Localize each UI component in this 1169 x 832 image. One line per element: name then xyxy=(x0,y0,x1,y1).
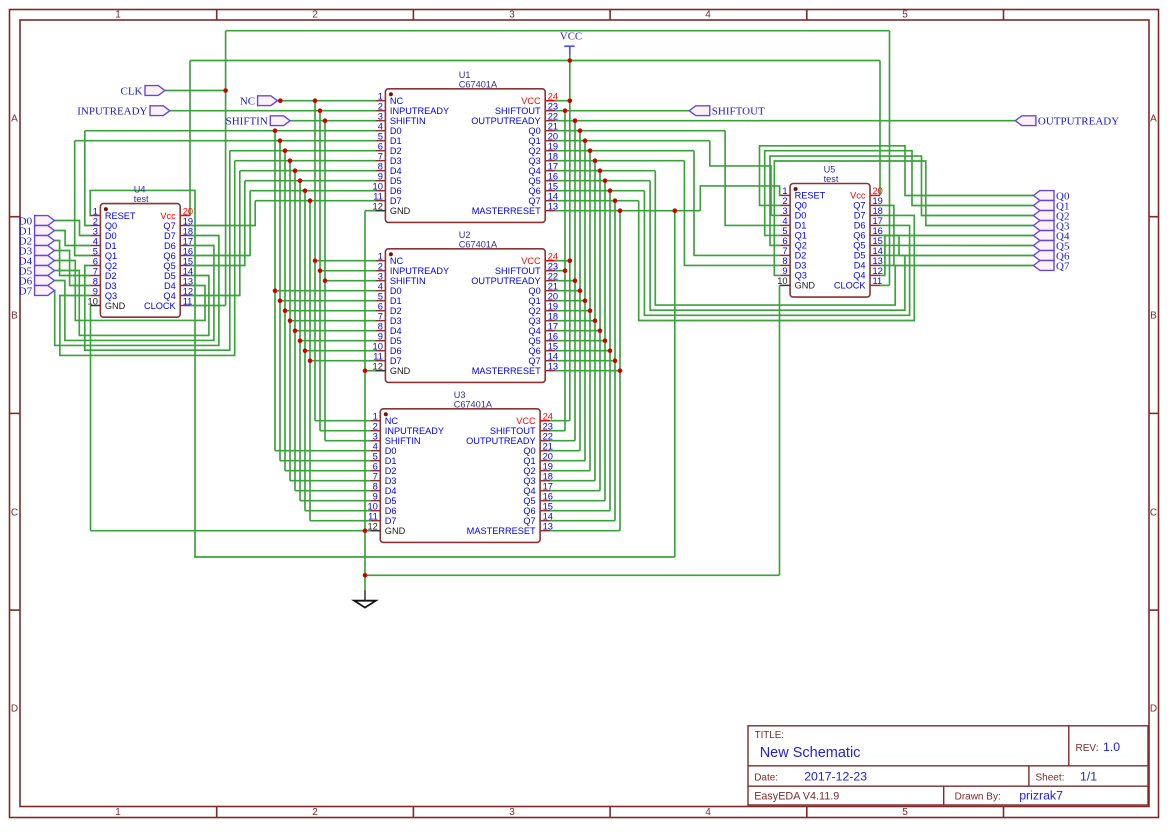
svg-text:D7: D7 xyxy=(854,211,866,221)
svg-text:8: 8 xyxy=(378,322,383,332)
svg-text:OUTPUTREADY: OUTPUTREADY xyxy=(1038,116,1119,128)
svg-text:1: 1 xyxy=(115,10,121,21)
svg-text:15: 15 xyxy=(548,342,558,352)
svg-text:6: 6 xyxy=(93,256,98,266)
svg-text:Q0: Q0 xyxy=(528,126,540,136)
svg-text:D1: D1 xyxy=(390,136,402,146)
svg-text:19: 19 xyxy=(543,462,553,472)
svg-text:18: 18 xyxy=(548,312,558,322)
svg-text:19: 19 xyxy=(183,216,193,226)
svg-text:2: 2 xyxy=(312,10,318,21)
svg-text:CLOCK: CLOCK xyxy=(144,301,177,311)
svg-text:16: 16 xyxy=(873,226,883,236)
svg-text:11: 11 xyxy=(183,296,193,306)
svg-text:VCC: VCC xyxy=(516,416,536,426)
svg-text:22: 22 xyxy=(548,112,558,122)
svg-text:CLOCK: CLOCK xyxy=(834,281,867,291)
svg-text:Q3: Q3 xyxy=(523,476,535,486)
svg-text:B: B xyxy=(1150,311,1157,322)
svg-text:SHIFTIN: SHIFTIN xyxy=(385,436,421,446)
svg-text:SHIFTIN: SHIFTIN xyxy=(390,276,426,286)
svg-text:2: 2 xyxy=(378,102,383,112)
svg-text:4: 4 xyxy=(782,216,787,226)
svg-text:Sheet:: Sheet: xyxy=(1036,772,1065,783)
svg-text:Date:: Date: xyxy=(754,772,778,783)
svg-text:3: 3 xyxy=(782,206,787,216)
svg-text:D3: D3 xyxy=(390,316,402,326)
svg-text:D7: D7 xyxy=(19,285,33,297)
svg-text:1: 1 xyxy=(93,206,98,216)
svg-text:INPUTREADY: INPUTREADY xyxy=(385,426,444,436)
svg-text:2: 2 xyxy=(93,216,98,226)
svg-text:prizrak7: prizrak7 xyxy=(1019,789,1063,803)
svg-text:2: 2 xyxy=(373,422,378,432)
svg-text:Q1: Q1 xyxy=(528,296,540,306)
svg-text:2: 2 xyxy=(312,807,318,818)
svg-text:NC: NC xyxy=(385,416,399,426)
svg-text:D2: D2 xyxy=(105,271,117,281)
svg-text:Q7: Q7 xyxy=(1056,260,1070,272)
svg-text:13: 13 xyxy=(873,256,883,266)
svg-text:SHIFTOUT: SHIFTOUT xyxy=(495,266,541,276)
svg-text:New Schematic: New Schematic xyxy=(760,745,861,761)
svg-text:24: 24 xyxy=(548,92,558,102)
svg-text:D3: D3 xyxy=(795,261,807,271)
svg-text:Q5: Q5 xyxy=(523,496,535,506)
svg-text:U1: U1 xyxy=(459,70,471,80)
svg-text:GND: GND xyxy=(385,526,406,536)
svg-text:VCC: VCC xyxy=(521,256,541,266)
svg-text:16: 16 xyxy=(548,172,558,182)
svg-text:12: 12 xyxy=(367,522,377,532)
svg-text:Q6: Q6 xyxy=(163,251,175,261)
svg-text:D0: D0 xyxy=(385,446,397,456)
svg-text:13: 13 xyxy=(543,522,553,532)
svg-text:6: 6 xyxy=(373,462,378,472)
svg-text:D5: D5 xyxy=(390,336,402,346)
svg-text:D4: D4 xyxy=(385,486,397,496)
svg-text:24: 24 xyxy=(543,412,553,422)
svg-text:3: 3 xyxy=(378,112,383,122)
svg-text:16: 16 xyxy=(183,246,193,256)
svg-text:A: A xyxy=(1150,114,1157,125)
svg-text:D1: D1 xyxy=(795,221,807,231)
svg-text:D7: D7 xyxy=(390,196,402,206)
svg-text:D4: D4 xyxy=(854,261,866,271)
svg-text:10: 10 xyxy=(777,276,787,286)
svg-text:10: 10 xyxy=(367,502,377,512)
svg-text:17: 17 xyxy=(548,162,558,172)
svg-text:SHIFTOUT: SHIFTOUT xyxy=(490,426,536,436)
svg-text:Q4: Q4 xyxy=(853,271,865,281)
svg-text:20: 20 xyxy=(873,186,883,196)
svg-text:1.0: 1.0 xyxy=(1103,740,1120,754)
svg-text:24: 24 xyxy=(548,252,558,262)
svg-text:D0: D0 xyxy=(105,231,117,241)
svg-text:6: 6 xyxy=(782,236,787,246)
svg-text:20: 20 xyxy=(543,452,553,462)
svg-text:4: 4 xyxy=(705,10,711,21)
svg-text:12: 12 xyxy=(373,362,383,372)
svg-text:9: 9 xyxy=(93,286,98,296)
svg-text:22: 22 xyxy=(543,432,553,442)
svg-text:13: 13 xyxy=(548,362,558,372)
svg-text:D3: D3 xyxy=(385,476,397,486)
svg-text:D4: D4 xyxy=(390,166,402,176)
svg-text:Q6: Q6 xyxy=(528,346,540,356)
svg-text:13: 13 xyxy=(548,202,558,212)
svg-text:Q0: Q0 xyxy=(528,286,540,296)
svg-text:17: 17 xyxy=(183,236,193,246)
svg-text:3: 3 xyxy=(509,10,515,21)
svg-text:14: 14 xyxy=(183,266,193,276)
svg-text:U2: U2 xyxy=(459,230,471,240)
svg-text:1: 1 xyxy=(373,412,378,422)
svg-text:RESET: RESET xyxy=(105,211,136,221)
svg-text:9: 9 xyxy=(782,266,787,276)
svg-text:D0: D0 xyxy=(390,286,402,296)
svg-text:Q5: Q5 xyxy=(528,176,540,186)
svg-text:23: 23 xyxy=(543,422,553,432)
svg-text:INPUTREADY: INPUTREADY xyxy=(77,106,147,118)
svg-text:7: 7 xyxy=(373,472,378,482)
svg-text:D6: D6 xyxy=(385,506,397,516)
svg-text:RESET: RESET xyxy=(795,191,826,201)
svg-text:7: 7 xyxy=(378,312,383,322)
svg-text:6: 6 xyxy=(378,302,383,312)
svg-text:14: 14 xyxy=(873,246,883,256)
svg-text:Q2: Q2 xyxy=(523,466,535,476)
svg-text:2017-12-23: 2017-12-23 xyxy=(804,769,867,783)
svg-text:D0: D0 xyxy=(795,211,807,221)
svg-text:Q3: Q3 xyxy=(528,316,540,326)
svg-text:19: 19 xyxy=(873,196,883,206)
svg-text:18: 18 xyxy=(543,472,553,482)
svg-text:D5: D5 xyxy=(385,496,397,506)
svg-text:11: 11 xyxy=(373,192,383,202)
svg-text:NC: NC xyxy=(390,96,404,106)
svg-text:1: 1 xyxy=(378,92,383,102)
svg-text:17: 17 xyxy=(873,216,883,226)
svg-text:D4: D4 xyxy=(390,326,402,336)
svg-text:5: 5 xyxy=(93,246,98,256)
svg-text:SHIFTIN: SHIFTIN xyxy=(226,116,268,128)
svg-text:U4: U4 xyxy=(134,185,146,195)
svg-text:2: 2 xyxy=(782,196,787,206)
svg-text:21: 21 xyxy=(548,122,558,132)
svg-text:C67401A: C67401A xyxy=(459,79,498,89)
svg-text:7: 7 xyxy=(93,266,98,276)
svg-text:5: 5 xyxy=(378,292,383,302)
svg-text:4: 4 xyxy=(378,122,383,132)
svg-text:Q5: Q5 xyxy=(528,336,540,346)
svg-text:Q1: Q1 xyxy=(795,231,807,241)
svg-text:C67401A: C67401A xyxy=(454,399,493,409)
svg-text:B: B xyxy=(11,311,18,322)
svg-text:OUTPUTREADY: OUTPUTREADY xyxy=(466,436,535,446)
svg-text:14: 14 xyxy=(548,192,558,202)
svg-text:Vcc: Vcc xyxy=(160,211,176,221)
svg-text:8: 8 xyxy=(378,162,383,172)
svg-text:Q2: Q2 xyxy=(105,261,117,271)
svg-text:A: A xyxy=(11,114,18,125)
svg-text:7: 7 xyxy=(782,246,787,256)
svg-text:MASTERRESET: MASTERRESET xyxy=(467,526,536,536)
svg-text:Q1: Q1 xyxy=(528,136,540,146)
svg-text:8: 8 xyxy=(373,482,378,492)
svg-text:D1: D1 xyxy=(385,456,397,466)
svg-text:10: 10 xyxy=(373,182,383,192)
svg-text:OUTPUTREADY: OUTPUTREADY xyxy=(471,276,540,286)
svg-text:19: 19 xyxy=(548,142,558,152)
svg-text:11: 11 xyxy=(373,352,383,362)
svg-text:Q7: Q7 xyxy=(523,516,535,526)
svg-text:1: 1 xyxy=(115,807,121,818)
svg-text:1/1: 1/1 xyxy=(1080,769,1097,783)
svg-text:MASTERRESET: MASTERRESET xyxy=(472,206,541,216)
svg-text:21: 21 xyxy=(543,442,553,452)
svg-text:Q1: Q1 xyxy=(105,251,117,261)
svg-text:Q2: Q2 xyxy=(795,241,807,251)
svg-text:D7: D7 xyxy=(390,356,402,366)
svg-text:U3: U3 xyxy=(454,390,466,400)
svg-text:Q2: Q2 xyxy=(528,306,540,316)
svg-text:5: 5 xyxy=(378,132,383,142)
svg-text:15: 15 xyxy=(543,502,553,512)
svg-text:14: 14 xyxy=(548,352,558,362)
svg-text:15: 15 xyxy=(548,182,558,192)
svg-text:D3: D3 xyxy=(105,281,117,291)
svg-text:12: 12 xyxy=(373,202,383,212)
svg-text:D3: D3 xyxy=(390,156,402,166)
svg-text:Q7: Q7 xyxy=(853,201,865,211)
svg-text:D1: D1 xyxy=(105,241,117,251)
svg-text:NC: NC xyxy=(240,96,255,108)
svg-text:Q4: Q4 xyxy=(163,291,175,301)
svg-text:3: 3 xyxy=(509,807,515,818)
svg-text:Q5: Q5 xyxy=(163,261,175,271)
svg-text:SHIFTIN: SHIFTIN xyxy=(390,116,426,126)
svg-text:Q7: Q7 xyxy=(528,356,540,366)
svg-text:14: 14 xyxy=(543,512,553,522)
svg-text:Q5: Q5 xyxy=(853,241,865,251)
svg-text:20: 20 xyxy=(183,206,193,216)
svg-text:Q2: Q2 xyxy=(528,146,540,156)
svg-text:18: 18 xyxy=(873,206,883,216)
svg-text:NC: NC xyxy=(390,256,404,266)
svg-text:CLK: CLK xyxy=(121,85,143,97)
svg-text:20: 20 xyxy=(548,132,558,142)
svg-text:D0: D0 xyxy=(390,126,402,136)
svg-text:SHIFTOUT: SHIFTOUT xyxy=(495,106,541,116)
svg-text:Q0: Q0 xyxy=(105,221,117,231)
svg-text:16: 16 xyxy=(548,332,558,342)
svg-text:D2: D2 xyxy=(795,251,807,261)
svg-text:Q6: Q6 xyxy=(853,231,865,241)
svg-text:10: 10 xyxy=(88,296,98,306)
svg-text:Vcc: Vcc xyxy=(850,191,866,201)
svg-text:9: 9 xyxy=(373,492,378,502)
svg-text:D2: D2 xyxy=(385,466,397,476)
svg-text:1: 1 xyxy=(782,186,787,196)
svg-text:VCC: VCC xyxy=(521,96,541,106)
svg-text:8: 8 xyxy=(93,276,98,286)
svg-text:C: C xyxy=(1150,508,1157,519)
svg-text:Q4: Q4 xyxy=(523,486,535,496)
svg-text:15: 15 xyxy=(873,236,883,246)
svg-text:GND: GND xyxy=(390,206,411,216)
svg-text:OUTPUTREADY: OUTPUTREADY xyxy=(471,116,540,126)
svg-text:Q3: Q3 xyxy=(105,291,117,301)
svg-text:D6: D6 xyxy=(390,346,402,356)
svg-text:9: 9 xyxy=(378,172,383,182)
svg-text:D7: D7 xyxy=(385,516,397,526)
svg-text:3: 3 xyxy=(93,226,98,236)
svg-text:D5: D5 xyxy=(164,271,176,281)
svg-text:REV:: REV: xyxy=(1076,743,1099,754)
svg-text:VCC: VCC xyxy=(560,31,582,43)
svg-text:20: 20 xyxy=(548,292,558,302)
svg-text:D6: D6 xyxy=(390,186,402,196)
svg-text:22: 22 xyxy=(548,272,558,282)
svg-text:17: 17 xyxy=(543,482,553,492)
svg-text:Q7: Q7 xyxy=(163,221,175,231)
svg-text:3: 3 xyxy=(373,432,378,442)
svg-text:6: 6 xyxy=(378,142,383,152)
svg-text:10: 10 xyxy=(373,342,383,352)
svg-text:Q0: Q0 xyxy=(523,446,535,456)
svg-text:D6: D6 xyxy=(854,221,866,231)
svg-text:Q4: Q4 xyxy=(528,166,540,176)
svg-text:11: 11 xyxy=(873,276,883,286)
svg-text:D5: D5 xyxy=(854,251,866,261)
svg-text:3: 3 xyxy=(378,272,383,282)
svg-text:SHIFTOUT: SHIFTOUT xyxy=(712,106,765,118)
svg-text:5: 5 xyxy=(902,10,908,21)
svg-text:D: D xyxy=(11,704,18,715)
svg-text:17: 17 xyxy=(548,322,558,332)
svg-text:test: test xyxy=(824,174,839,184)
svg-text:4: 4 xyxy=(373,442,378,452)
svg-text:2: 2 xyxy=(378,262,383,272)
svg-text:D4: D4 xyxy=(164,281,176,291)
svg-text:Q6: Q6 xyxy=(528,186,540,196)
svg-text:18: 18 xyxy=(183,226,193,236)
svg-text:18: 18 xyxy=(548,152,558,162)
svg-text:4: 4 xyxy=(378,282,383,292)
svg-text:GND: GND xyxy=(390,366,411,376)
svg-text:D6: D6 xyxy=(164,241,176,251)
svg-text:Q7: Q7 xyxy=(528,196,540,206)
svg-text:Q1: Q1 xyxy=(523,456,535,466)
svg-text:15: 15 xyxy=(183,256,193,266)
svg-text:D: D xyxy=(1150,704,1157,715)
svg-text:C67401A: C67401A xyxy=(459,239,498,249)
svg-text:Q3: Q3 xyxy=(528,156,540,166)
svg-text:1: 1 xyxy=(378,252,383,262)
svg-text:Q0: Q0 xyxy=(795,201,807,211)
svg-text:EasyEDA V4.11.9: EasyEDA V4.11.9 xyxy=(754,791,839,803)
svg-text:16: 16 xyxy=(543,492,553,502)
svg-text:4: 4 xyxy=(705,807,711,818)
svg-text:D5: D5 xyxy=(390,176,402,186)
svg-text:Q6: Q6 xyxy=(523,506,535,516)
svg-text:9: 9 xyxy=(378,332,383,342)
svg-text:INPUTREADY: INPUTREADY xyxy=(390,266,449,276)
svg-text:Q3: Q3 xyxy=(795,271,807,281)
svg-text:GND: GND xyxy=(795,281,816,291)
svg-text:8: 8 xyxy=(782,256,787,266)
svg-text:D2: D2 xyxy=(390,306,402,316)
svg-text:12: 12 xyxy=(183,286,193,296)
svg-text:MASTERRESET: MASTERRESET xyxy=(472,366,541,376)
svg-text:13: 13 xyxy=(183,276,193,286)
svg-text:12: 12 xyxy=(873,266,883,276)
svg-text:5: 5 xyxy=(902,807,908,818)
svg-text:C: C xyxy=(11,508,18,519)
svg-text:test: test xyxy=(134,194,149,204)
svg-text:11: 11 xyxy=(368,512,378,522)
svg-text:D7: D7 xyxy=(164,231,176,241)
svg-text:23: 23 xyxy=(548,102,558,112)
svg-text:7: 7 xyxy=(378,152,383,162)
svg-text:D2: D2 xyxy=(390,146,402,156)
svg-text:5: 5 xyxy=(782,226,787,236)
svg-text:5: 5 xyxy=(373,452,378,462)
svg-text:U5: U5 xyxy=(824,165,836,175)
svg-text:INPUTREADY: INPUTREADY xyxy=(390,106,449,116)
svg-text:21: 21 xyxy=(548,282,558,292)
svg-text:19: 19 xyxy=(548,302,558,312)
svg-text:GND: GND xyxy=(105,301,126,311)
svg-text:TITLE:: TITLE: xyxy=(755,730,784,741)
svg-text:Q4: Q4 xyxy=(528,326,540,336)
svg-text:D1: D1 xyxy=(390,296,402,306)
svg-text:23: 23 xyxy=(548,262,558,272)
svg-text:Drawn By:: Drawn By: xyxy=(955,792,1001,803)
svg-text:4: 4 xyxy=(93,236,98,246)
